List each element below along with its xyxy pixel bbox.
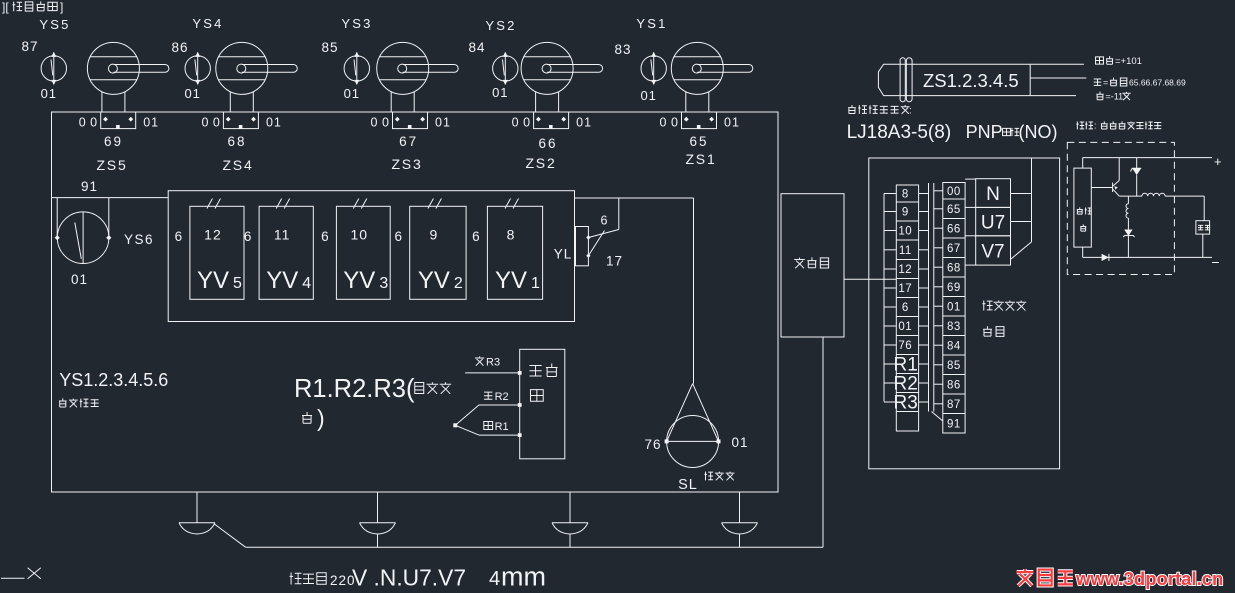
svg-text:ZS1.2.3.4.5: ZS1.2.3.4.5	[923, 70, 1019, 91]
label 红R1	[484, 421, 509, 433]
svg-text:6: 6	[321, 229, 329, 244]
main circuit box 主回路	[1074, 168, 1091, 247]
solenoid valve YV3	[336, 199, 390, 300]
svg-text:6: 6	[244, 229, 252, 244]
svg-text:N: N	[986, 184, 1000, 205]
wires right of N/U7/V7	[1011, 159, 1032, 260]
sensor wire blue	[1030, 95, 1076, 97]
limit switch ZS3 box	[393, 112, 428, 129]
svg-text:0 0: 0 0	[660, 116, 679, 130]
svg-text:87: 87	[21, 39, 38, 54]
label PNP常开(NO)	[966, 122, 1058, 142]
svg-text:01: 01	[344, 86, 360, 101]
svg-text:01: 01	[898, 321, 912, 333]
pressure gauge YS6	[55, 212, 112, 264]
heater 1	[179, 492, 215, 534]
svg-text:11: 11	[274, 226, 291, 242]
svg-text:R2: R2	[894, 374, 918, 395]
ball valve YS3	[377, 42, 458, 112]
svg-text:84: 84	[947, 340, 961, 352]
svg-text:76: 76	[898, 340, 912, 352]
svg-text:9: 9	[430, 226, 439, 242]
heater 3	[552, 492, 588, 547]
svg-text:69: 69	[104, 134, 123, 149]
heater 2	[360, 492, 396, 547]
label 感应开关型号:	[848, 105, 912, 117]
svg-text:LJ18A3-5(8): LJ18A3-5(8)	[847, 122, 952, 143]
svg-text:0 0: 0 0	[201, 116, 220, 130]
transistor Q	[1091, 158, 1119, 197]
wire R1 red	[479, 434, 520, 436]
svg-text::: :	[909, 106, 912, 117]
svg-text:9: 9	[902, 207, 909, 219]
solenoid valve YV5	[190, 199, 244, 300]
svg-text:12: 12	[204, 226, 222, 242]
junction box 接线盒	[781, 194, 844, 337]
pressure gauge YS5	[41, 52, 66, 85]
svg-text:65: 65	[947, 204, 961, 216]
svg-text:ZS1: ZS1	[685, 151, 716, 167]
svg-text:R1: R1	[495, 421, 509, 433]
svg-text:6: 6	[601, 214, 608, 228]
svg-text:(NO): (NO)	[1019, 122, 1058, 142]
wiring diagram outer box	[869, 158, 1060, 469]
svg-text:01: 01	[731, 435, 748, 450]
load box 负载	[1196, 196, 1210, 257]
svg-text:65.66.67.68.69: 65.66.67.68.69	[1129, 78, 1186, 88]
svg-text:17: 17	[606, 254, 623, 269]
solenoid valve YV1	[487, 199, 542, 300]
pin 6 wire of YL switch	[618, 198, 620, 230]
svg-text:67: 67	[399, 134, 418, 149]
svg-text:6: 6	[902, 302, 909, 314]
left bus ladder	[884, 194, 896, 403]
svg-text:R2: R2	[495, 391, 509, 403]
svg-text:V .N.U7.V7: V .N.U7.V7	[352, 565, 466, 591]
right terminal strip	[943, 183, 965, 434]
pressure gauge YS2	[493, 52, 518, 85]
wire junction box down to heater bus	[822, 337, 824, 547]
left terminal strip	[896, 185, 918, 431]
limit switch ZS5 box	[101, 112, 136, 129]
svg-text:01: 01	[41, 86, 57, 101]
svg-text:4: 4	[489, 568, 500, 590]
zener diode top	[1131, 158, 1142, 197]
svg-text:68: 68	[947, 262, 961, 274]
wire YV box to SL drop	[574, 197, 693, 199]
svg-text:YS1.2.3.4.5.6: YS1.2.3.4.5.6	[59, 370, 168, 390]
label 液位计	[704, 472, 713, 481]
svg-text:U7: U7	[981, 213, 1005, 234]
label 油堵开关	[59, 398, 67, 407]
svg-text:10: 10	[351, 226, 369, 242]
terminal U7	[976, 207, 1011, 235]
sensor wire black/output	[1030, 77, 1086, 79]
svg-text:69: 69	[947, 282, 961, 294]
solenoid manifold outer box	[168, 191, 574, 322]
svg-text:PNP: PNP	[966, 122, 1003, 142]
circuit - rail with diode	[1083, 247, 1219, 262]
svg-text:86: 86	[947, 379, 961, 391]
svg-text:83: 83	[614, 42, 631, 57]
limit switch ZS2 box	[534, 112, 569, 129]
YL switch contacts	[586, 230, 619, 258]
svg-text:YL: YL	[554, 247, 573, 262]
wire heater1 to bus	[214, 524, 246, 547]
svg-text:YS1: YS1	[636, 16, 667, 31]
svg-text:01: 01	[266, 116, 282, 130]
svg-text:86: 86	[171, 40, 188, 55]
label 说明:电感式接近开关	[1076, 121, 1161, 131]
svg-text:01: 01	[435, 116, 451, 130]
liquid level gauge SL	[665, 384, 721, 468]
svg-text:91: 91	[947, 418, 961, 430]
svg-text:0 0: 0 0	[79, 116, 98, 130]
svg-text:R3: R3	[486, 357, 500, 369]
svg-text:76: 76	[644, 437, 661, 452]
svg-text:=-11: =-11	[1106, 92, 1124, 102]
limit switch ZS4 box	[223, 112, 258, 129]
svg-text:66: 66	[538, 136, 557, 151]
svg-text:01: 01	[724, 116, 740, 130]
proximity sensor body	[878, 58, 1030, 102]
svg-text:01: 01	[640, 88, 656, 103]
label 黑R2	[484, 391, 509, 403]
svg-text:68: 68	[227, 134, 246, 149]
svg-text:][: ][	[2, 0, 9, 14]
wire down to SL	[693, 198, 695, 384]
wire tank-left to YV box with YS6 taps	[52, 198, 169, 238]
svg-text:12: 12	[898, 264, 912, 276]
wire R3 white	[465, 372, 520, 374]
svg-text:85: 85	[321, 40, 338, 55]
ball valve YS2	[521, 42, 603, 112]
svg-text:mm: mm	[501, 562, 546, 592]
svg-text:01: 01	[576, 116, 592, 130]
svg-text:11: 11	[899, 245, 912, 257]
svg-text:17: 17	[898, 283, 912, 295]
svg-text:01: 01	[71, 272, 88, 287]
svg-text:YS4: YS4	[192, 16, 223, 31]
label 液压站接线图	[982, 300, 992, 310]
svg-text:www.3dportal.cn: www.3dportal.cn	[1075, 568, 1223, 589]
svg-text:83: 83	[947, 321, 961, 333]
tank enclosure box	[52, 112, 779, 492]
svg-text:01: 01	[947, 301, 961, 313]
label 加热器220V .N.U7.V7 4mm	[290, 562, 546, 592]
terminal V7	[976, 236, 1011, 265]
label 黑=输出65.66.67.68.69	[1094, 78, 1186, 88]
stubs to N/U7/V7	[965, 179, 976, 265]
ball valve YS5	[87, 42, 168, 112]
emitter wire + inductor L1	[1119, 193, 1204, 196]
svg-text:YS6: YS6	[124, 232, 154, 247]
svg-text:65: 65	[689, 134, 708, 149]
YL coil box	[576, 227, 589, 266]
thermocouple box 热电偶	[520, 349, 565, 459]
solenoid valve YV2	[410, 199, 466, 300]
wire R2 black	[479, 404, 520, 406]
svg-text:): )	[317, 405, 325, 431]
UCS icon	[1, 568, 41, 579]
svg-text:01: 01	[184, 86, 200, 101]
svg-text:R1.R2.R3(: R1.R2.R3(	[294, 375, 415, 403]
ball valve YS4	[216, 42, 297, 112]
svg-text:8: 8	[902, 189, 909, 201]
svg-text:YS3: YS3	[341, 16, 372, 31]
svg-text:00: 00	[947, 186, 961, 198]
label R1.R2.R3(用补偿线)	[294, 375, 451, 431]
svg-text:+: +	[1214, 154, 1222, 169]
svg-text:6: 6	[394, 229, 402, 244]
svg-text::: :	[1094, 121, 1097, 131]
middle connector ladder	[919, 183, 943, 421]
svg-text:0 0: 0 0	[512, 116, 531, 130]
inductor L2 vertical	[1126, 196, 1128, 229]
watermark 三维网www.3dportal.cn	[1017, 568, 1224, 589]
svg-text:85: 85	[947, 360, 961, 372]
svg-text:84: 84	[468, 40, 485, 55]
wire junction box to terminal ladder	[844, 278, 896, 280]
svg-text:67: 67	[947, 243, 961, 255]
svg-text:V7: V7	[981, 242, 1004, 263]
circuit + rail	[1083, 154, 1222, 169]
label 蓝=-11号	[1096, 92, 1130, 102]
svg-text:ZS2: ZS2	[525, 155, 556, 171]
svg-text:R1: R1	[894, 355, 918, 376]
zener diode lower	[1123, 230, 1134, 258]
svg-text:01: 01	[492, 85, 508, 100]
heater bus wire	[246, 546, 823, 548]
svg-text:87: 87	[947, 399, 961, 411]
svg-text:66: 66	[947, 223, 961, 235]
heater 4	[722, 492, 758, 547]
compensation wire fan node	[453, 405, 479, 435]
solenoid valve YV4	[259, 199, 313, 300]
svg-text:10: 10	[898, 226, 912, 238]
sensor wire red/brown	[1030, 63, 1084, 65]
svg-text:ZS5: ZS5	[96, 157, 127, 173]
svg-text:91: 91	[81, 179, 98, 194]
svg-text:ZS3: ZS3	[391, 156, 422, 172]
svg-text:R3: R3	[894, 393, 918, 414]
limit switch ZS1 box	[682, 112, 717, 129]
label 白R3	[475, 356, 500, 368]
svg-text:YS2: YS2	[485, 18, 516, 33]
label 红棕=+101	[1096, 56, 1142, 67]
ball valve YS1	[671, 42, 753, 112]
svg-text:8: 8	[507, 226, 516, 242]
pressure gauge YS4	[185, 52, 210, 85]
svg-text:=: =	[1103, 78, 1108, 88]
terminal N	[976, 179, 1011, 208]
pressure gauge YS3	[344, 52, 369, 85]
svg-text:6: 6	[472, 229, 480, 244]
svg-text:YS5: YS5	[39, 17, 70, 32]
svg-text:=+101: =+101	[1115, 56, 1142, 67]
viewport label [二维线框]	[2, 0, 63, 14]
svg-text:01: 01	[143, 116, 159, 130]
dashed explanation box	[1067, 142, 1174, 274]
svg-text:]: ]	[60, 0, 63, 14]
svg-text:6: 6	[175, 229, 183, 244]
svg-text:SL: SL	[678, 477, 698, 493]
pressure gauge YS1	[641, 52, 666, 85]
svg-text:0 0: 0 0	[371, 116, 390, 130]
svg-text:ZS4: ZS4	[222, 157, 253, 173]
